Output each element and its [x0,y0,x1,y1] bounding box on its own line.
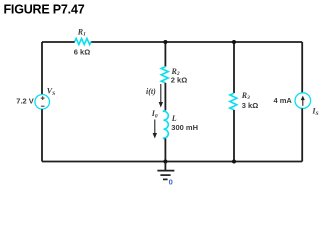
svg-text:2 kΩ: 2 kΩ [171,76,187,85]
current source arrow [302,99,304,106]
resistor R3 [230,93,237,110]
wire middle branch mid [164,83,166,111]
wire right lower [301,108,303,161]
voltage source Vs circle [35,95,50,110]
wire R3 branch upper [233,42,235,93]
current source Is circle [295,93,311,109]
wire middle branch lower [164,139,166,162]
svg-text:R1: R1 [77,28,86,38]
current arrow i(t) [160,84,162,103]
svg-text:7.2 V: 7.2 V [16,96,34,105]
junction dot bottom R3 [232,160,236,164]
current arrow I0 [154,120,156,135]
svg-text:3 kΩ: 3 kΩ [242,101,258,110]
wire middle branch upper [164,42,166,67]
svg-text:0: 0 [169,177,173,186]
ground [164,162,166,171]
junction dot top middle [163,40,167,44]
wire top-left segment [42,41,75,43]
svg-text:i(t): i(t) [146,87,156,96]
wire right upper [301,42,303,93]
voltage source plus sign [41,96,45,100]
junction dot top R3 [232,40,236,44]
svg-text:I0: I0 [151,109,158,120]
resistor R1 [75,39,91,45]
svg-text:R3: R3 [241,91,250,101]
svg-text:6 kΩ: 6 kΩ [74,48,90,57]
voltage source minus sign [41,105,45,107]
svg-text:FIGURE P7.47: FIGURE P7.47 [4,3,85,17]
svg-text:4 mA: 4 mA [273,96,292,105]
svg-text:300 mH: 300 mH [171,123,198,132]
wire bottom [42,161,302,163]
wire left lower [41,109,43,161]
svg-text:VS: VS [47,87,55,97]
wire top-right segment [91,41,302,43]
inductor L [164,111,169,139]
svg-text:L: L [171,114,177,123]
svg-text:IS: IS [311,107,318,117]
wire R3 branch lower [233,110,235,162]
junction dot bottom middle [163,160,167,164]
wire left upper [41,42,43,95]
resistor R2 [161,67,168,83]
